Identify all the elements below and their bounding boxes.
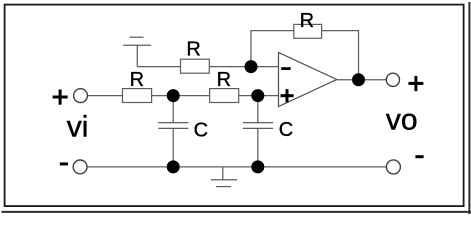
svg-text:C: C <box>194 119 208 141</box>
svg-text:R: R <box>130 69 144 91</box>
svg-text:R: R <box>217 69 231 91</box>
svg-text:vi: vi <box>67 111 89 144</box>
svg-text:C: C <box>279 119 293 141</box>
svg-text:vo: vo <box>386 103 418 136</box>
svg-text:R: R <box>186 39 200 61</box>
svg-text:R: R <box>300 10 314 32</box>
